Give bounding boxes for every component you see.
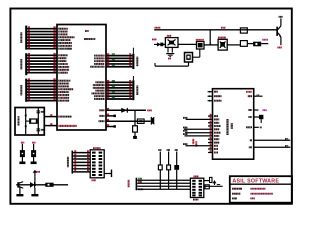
wire P4 B/S pin 3 [27, 60, 57, 62]
wire U2 out1 [254, 139, 291, 141]
LED D4 [32, 142, 35, 144]
pin U2 STB pin 5 [186, 118, 213, 120]
wire P5 B/S pin 4 [27, 88, 57, 90]
title block header [230, 183, 292, 185]
bridge rectifier DB1 [165, 38, 178, 48]
label P2 net names [128, 180, 130, 188]
no-connect pad pin 12 [113, 115, 116, 118]
wire rail cap join [230, 44, 240, 46]
crystal oscillator module X2 [185, 53, 193, 63]
wire P6 B/S pin 5 [27, 39, 57, 41]
wire bottom-left horizontal [16, 184, 68, 186]
label 12V mid [221, 27, 226, 29]
tick LED row left [229, 42, 231, 45]
no-connect pad pin 32 [113, 125, 116, 128]
wire P7 B/S pin 33 [106, 55, 133, 57]
wire P5 B/S pin 3 [27, 85, 57, 87]
wire P1 pin 5 [73, 165, 90, 167]
resistor R4 [133, 126, 138, 132]
title block [230, 176, 292, 203]
wire P1 pin 4 [73, 161, 90, 163]
capacitor C3a stub [171, 47, 173, 52]
wire P7 bar extension [132, 48, 134, 54]
wire P8 B/S pin 20 [106, 84, 133, 86]
capacitor C3 stub [167, 47, 169, 52]
wire P7 B/S pin 34 [106, 57, 133, 59]
capacitor C10 [205, 185, 209, 189]
pin U2 AD0 [208, 91, 213, 93]
wire OSC2 to U1 [44, 125, 57, 127]
resistor R5 on pin31 wire [137, 119, 144, 123]
driver IC U2 [213, 89, 254, 160]
wire P1 pin 7 [73, 171, 90, 173]
wire P5 B/S pin 1 [27, 80, 57, 82]
ground D4 [31, 162, 37, 165]
connector J1 [190, 178, 203, 197]
wire P6 B/S pin 8 [27, 48, 57, 50]
svg-text:ASIL SOFTWARE: ASIL SOFTWARE [232, 178, 279, 184]
diode D8 at power input [160, 43, 163, 47]
wire P5 B/S pin 7 [27, 97, 57, 99]
wire Q3 emitter down [19, 187, 21, 194]
wire VIN to bridge [160, 43, 166, 45]
pin U2 TXD8 stub [254, 126, 259, 128]
wire P6 B/S pin 1 [27, 28, 57, 30]
capacitor D6 [175, 149, 178, 151]
tick X2 left end [154, 63, 156, 66]
label Q1 collector net [279, 16, 283, 18]
wire J1 pin lower [204, 185, 223, 187]
capacitor C6 [167, 149, 170, 151]
label P5 B/S designator [20, 85, 22, 96]
pin U2 VINTCH [208, 100, 213, 102]
microcontroller U1 PIC16F877 [57, 25, 106, 131]
wire LED end [261, 43, 268, 45]
wire U1 pin 12 stub [106, 115, 114, 117]
wire C6 down [168, 170, 170, 189]
wire X2 down [188, 62, 190, 66]
pin U2 NP stub [254, 109, 259, 111]
pin U2 P-25 pin 7 [208, 125, 213, 127]
wire VDD to R4 [134, 110, 136, 126]
buzzer LS1 [150, 117, 152, 125]
wire R4 to pad [134, 132, 136, 136]
pin U2 VR pin 13 [186, 145, 213, 147]
wire X2 left [155, 65, 189, 67]
wire VCC down [34, 177, 36, 185]
wire osc right vertical [37, 108, 39, 134]
wire P8 B/S pin 24 [106, 95, 133, 97]
pin U2 XDRV [246, 91, 252, 93]
wire P4 B/S pin 4 [27, 63, 57, 65]
resistor R7 [45, 183, 53, 187]
junction osc node A [25, 115, 27, 117]
label P4 B/S designator [20, 59, 22, 69]
power flag near J1 [213, 180, 217, 183]
wire P7 B/S pin 36 [106, 63, 133, 65]
ground pad below R4 [133, 136, 137, 139]
pin U2 IL pin 4 [208, 115, 213, 117]
diode D5 [30, 182, 35, 188]
wire D6 down [176, 170, 178, 189]
wire P1 pin 3 [73, 158, 90, 160]
wire bus 3 [137, 185, 190, 187]
wire bridge to regulator [178, 43, 197, 45]
wire +12V rail [154, 29, 276, 31]
junction bottom-left [34, 184, 36, 186]
wire P4 B/S pin 5 [27, 66, 57, 68]
wire P6 B/S pin 6 [27, 42, 57, 44]
wire P5 B/S pin 8 [27, 100, 57, 102]
IC U3 [218, 39, 227, 50]
wire rail drop to regulator row [209, 30, 211, 45]
capacitor C4 on rail [240, 28, 247, 33]
wire bus 4 [137, 188, 190, 190]
pin U2 GROUND [208, 95, 213, 97]
pin U2 OSC pin 12 [208, 142, 213, 144]
capacitor C5 [158, 149, 161, 151]
wire P1 pin 6 [73, 168, 90, 170]
label +12V [155, 27, 161, 29]
wire P5 B/S pin 5 [27, 91, 57, 93]
oscillator circuit box [15, 108, 44, 136]
label Q1 emitter net [277, 47, 281, 49]
ground D3 [19, 162, 25, 165]
crystal Y1 [31, 119, 37, 123]
connector P8 B/S [132, 80, 134, 100]
wire P4 B/S pin 1 [27, 54, 57, 56]
test point bar [111, 170, 112, 178]
wire P6 B/S pin 3 [27, 33, 57, 35]
junction osc node B [25, 125, 27, 127]
title row desk [232, 197, 237, 199]
wire P4 B/S pin 7 [27, 72, 57, 74]
label P7 B/S designator [136, 57, 138, 67]
wire P1 pin 1 [73, 152, 90, 154]
pin U2 CTL pin 10 [185, 135, 213, 137]
connector P7 B/S [132, 54, 134, 69]
label J1 right net [217, 184, 220, 186]
wire bus 1 [137, 179, 190, 181]
wire crystal right lead [37, 120, 38, 122]
wire regulator to U3 [204, 44, 218, 46]
junction node VDD [134, 110, 136, 112]
label C3 [168, 58, 171, 60]
wire P5 B/S pin 2 [27, 83, 57, 85]
wire J1 to C9 [204, 180, 210, 182]
wire P4 B/S pin 6 [27, 69, 57, 71]
capacitor C1 [37, 110, 41, 112]
label P6 B/S designator [20, 32, 22, 43]
wire Q1 emitter [280, 37, 282, 45]
wire U3 to LED row [227, 44, 240, 46]
wire P7 B/S pin 35 [106, 60, 133, 62]
wire U1 pin 31 [106, 120, 151, 122]
border frame [10, 9, 291, 204]
wire C5 down [159, 170, 161, 189]
label U1 bottom note [59, 125, 78, 127]
pin U2 PD wire [254, 116, 259, 118]
power flag VCC [34, 172, 36, 176]
wire P1 pin 2 [73, 155, 90, 157]
wire C12 to LED [247, 43, 253, 45]
wire Q1 collector [280, 18, 282, 26]
wire P8 B/S pin 21 [106, 87, 133, 89]
wire P8 B/S pin 22 [106, 90, 133, 92]
diode D1 on VDD wire [121, 108, 127, 113]
wire U2 out2 [254, 146, 291, 148]
transistor Q3 [17, 182, 19, 187]
capacitor C12 on LED row [240, 41, 247, 47]
wire P4 B/S pin 2 [27, 57, 57, 59]
junction regulator row [209, 44, 211, 46]
title row file name [232, 188, 242, 190]
capacitor C11 at U2 [259, 115, 263, 119]
pin U2 E2 pin 15 [208, 152, 213, 154]
capacitor C2 [37, 128, 41, 130]
pin U2 E1 pin 14 [208, 148, 213, 150]
wire P8 B/S pin 25 [106, 98, 133, 100]
label D7 [262, 39, 268, 41]
capacitor C9 [210, 177, 213, 182]
voltage regulator VR1 7805 [197, 42, 205, 50]
wire U1 pin 32 stub [106, 126, 114, 128]
wire P6 B/S pin 7 [27, 45, 57, 47]
pin U2 TMI pin 8 [184, 128, 213, 130]
title row add text [232, 193, 241, 195]
pin U2 PLS pin 6 [208, 122, 213, 124]
wire osc left vertical [25, 108, 27, 134]
wire regulator down to crystal box [199, 49, 201, 57]
label U2 left wires [183, 117, 187, 119]
pin U2 LIN pin 11 [208, 138, 213, 140]
wire D5 down [34, 188, 36, 194]
wire P8 B/S pin 23 [106, 92, 133, 94]
LED D7 [253, 42, 261, 47]
wire bus 2 [137, 182, 190, 184]
label bus net names red [192, 139, 194, 144]
transistor Q1 [276, 27, 278, 36]
connector P2 bar [136, 178, 138, 191]
ground below C3 [166, 53, 174, 55]
ground D5 [31, 194, 38, 196]
label +5V net [147, 110, 152, 112]
wire P6 B/S pin 2 [27, 31, 57, 33]
wire P5 B/S pin 6 [27, 94, 57, 96]
LED D3 [21, 142, 24, 144]
wire OSC1 to U1 [44, 116, 57, 118]
connector P4 B/S [25, 53, 27, 75]
label P1 designator [67, 157, 69, 168]
wire crystal left lead [26, 120, 30, 122]
wire VDD from U1 pin 11 [106, 109, 147, 111]
pin U2 TIP [249, 95, 254, 97]
connector P6 B/S [25, 26, 27, 50]
connector P1 bar [72, 151, 74, 174]
wire P7 B/S pin 37 [106, 66, 133, 68]
wire P6 B/S pin 4 [27, 36, 57, 38]
wire CON10 to test point [104, 173, 111, 175]
pin U2 GILL pin 9 [185, 132, 213, 134]
power input VIN [152, 39, 156, 41]
connector J3 CON10 [90, 150, 104, 178]
connector P5 B/S [25, 79, 27, 102]
label oscillator rotated [18, 116, 20, 126]
wire P8 bar extension [132, 76, 134, 80]
wire P8 B/S pin 19 [106, 81, 133, 83]
label P8 B/S designator [136, 86, 138, 96]
ground Q3 [16, 194, 23, 196]
